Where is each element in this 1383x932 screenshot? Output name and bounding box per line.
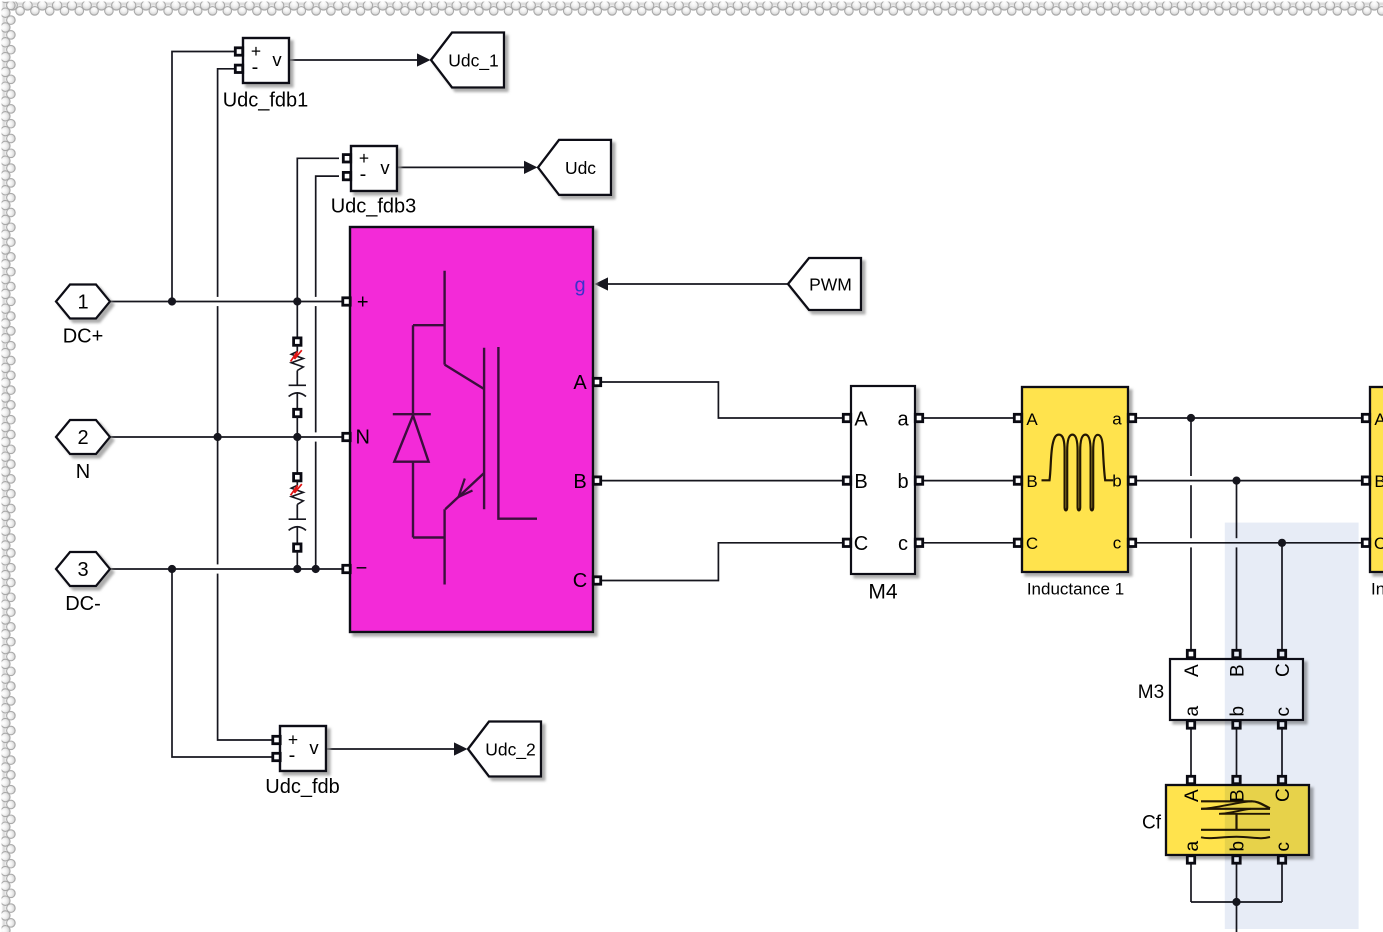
svg-text:Udc_2: Udc_2 (485, 740, 536, 761)
block Inductance 1 body (1022, 387, 1128, 572)
svg-text:Cf: Cf (1142, 813, 1162, 834)
svg-text:Inductance 2: Inductance 2 (1371, 580, 1383, 599)
junction DC- / fdb3 minus (312, 565, 320, 573)
svg-text:Udc_fdb1: Udc_fdb1 (223, 90, 309, 112)
svg-text:DC+: DC+ (63, 326, 104, 348)
svg-text:3: 3 (77, 559, 88, 581)
svg-text:a: a (1112, 410, 1122, 429)
wire Udc_fdb1 plus branch (172, 52, 235, 302)
svg-text:b: b (1112, 472, 1121, 491)
wire Inductance a to Inductance2 A (1132, 417, 1366, 419)
wire Udc_fdb3 plus branch (297, 158, 339, 301)
svg-text:DC-: DC- (65, 593, 101, 615)
block Inductance 2 body (partial) (1370, 387, 1383, 572)
junction b / M3 (1232, 477, 1240, 485)
input port 1 (56, 285, 110, 319)
svg-text:2: 2 (77, 427, 88, 449)
wire bridge C to M4 C (597, 543, 847, 581)
voltage measurement Udc_fdb1 (243, 38, 289, 83)
svg-text:M3: M3 (1138, 682, 1164, 703)
svg-text:+: + (357, 292, 369, 314)
wire phase-c vertical to M3 C (1281, 543, 1283, 650)
wire phase-a vertical to M3 A (1190, 418, 1192, 650)
RC snubber branch 2 (289, 437, 306, 569)
svg-text:A: A (854, 409, 868, 431)
svg-text:A: A (1182, 664, 1203, 677)
junction DC+ / snubber (293, 297, 301, 305)
junction neutral (1232, 898, 1240, 906)
svg-text:C: C (854, 533, 868, 555)
svg-text:a: a (1182, 841, 1203, 852)
svg-text:v: v (380, 157, 390, 178)
Inductance 2 port labels (1374, 410, 1383, 553)
wire Cf b down (1236, 860, 1238, 902)
RC snubber branch 1 (289, 302, 306, 438)
M3 rotated port labels (1182, 663, 1294, 716)
wire bridge A to M4 A (597, 382, 847, 418)
junction N / snubber (293, 433, 301, 441)
label N (76, 461, 90, 483)
svg-text:Udc_1: Udc_1 (448, 51, 499, 72)
wire M4 a to Inductance A (919, 417, 1018, 419)
capacitor bank icon (1201, 801, 1270, 838)
svg-text:PWM: PWM (809, 275, 852, 295)
wire M3 c to Cf C (1281, 726, 1283, 777)
svg-text:C: C (1026, 534, 1038, 553)
svg-text:B: B (1374, 472, 1383, 491)
svg-text:g: g (574, 275, 585, 297)
svg-text:c: c (1113, 534, 1122, 553)
wire N net (110, 436, 347, 438)
goto tag Udc (538, 140, 611, 195)
wire Cf c down (1281, 860, 1283, 902)
from tag PWM (788, 258, 861, 310)
wire Udc_fdb3 minus to DC- net vertical (316, 176, 339, 569)
wire Udc_fdb1 minus to N net vertical (218, 69, 273, 740)
wire Inductance b to Inductance2 B (1132, 480, 1366, 482)
goto tag Udc_1 (431, 33, 504, 88)
wire M4 b to Inductance B (919, 480, 1018, 482)
goto tag Udc_2 (468, 722, 541, 777)
wire Udc_fdb3 output (396, 161, 538, 174)
block M3 body (1170, 659, 1303, 720)
label DC+ (63, 326, 104, 348)
port connector squares (235, 48, 1369, 863)
wire Udc_fdb minus branch (172, 569, 273, 757)
svg-text:B: B (1026, 472, 1037, 491)
wire M3 a to Cf A (1190, 726, 1192, 777)
svg-text:C: C (1374, 534, 1383, 553)
input port 2 (56, 420, 110, 454)
svg-text:A: A (1026, 410, 1038, 429)
svg-text:Udc_fdb3: Udc_fdb3 (331, 196, 417, 218)
junction a / M3 (1187, 414, 1195, 422)
svg-text:C: C (573, 570, 587, 592)
wire neutral bus bottom (1191, 901, 1282, 903)
voltage measurement Udc_fdb3 (351, 146, 397, 191)
label Udc_fdb1 (223, 90, 309, 112)
IGBT with antiparallel diode icon (393, 271, 537, 585)
gate label g (574, 275, 585, 297)
svg-text:c: c (898, 533, 908, 555)
svg-text:a: a (897, 409, 909, 431)
inductor coil icon (1042, 435, 1114, 511)
svg-text:A: A (1374, 410, 1383, 429)
wire Inductance c to Inductance2 C (1132, 542, 1366, 544)
svg-text:Udc: Udc (565, 158, 596, 178)
svg-text:B: B (854, 471, 867, 493)
label M4 (868, 581, 897, 604)
svg-text:1: 1 (77, 292, 88, 314)
svg-text:-: - (289, 745, 296, 767)
svg-text:v: v (309, 737, 319, 758)
shaded selection overlay (1225, 523, 1359, 929)
bridge port labels + N - A B C (355, 292, 587, 593)
svg-text:M4: M4 (868, 581, 897, 604)
label Udc_fdb3 (331, 196, 417, 218)
wire DC+ net (110, 301, 347, 303)
svg-text:N: N (76, 461, 90, 483)
label DC- (65, 593, 101, 615)
svg-text:a: a (1182, 706, 1203, 717)
junction c / M3 (1278, 539, 1286, 547)
svg-text:N: N (355, 427, 369, 449)
label Cf (1142, 813, 1162, 834)
junction N / fdb1 minus (214, 433, 222, 441)
label Inductance 2 (clipped) (1371, 580, 1383, 599)
junction DC- / fdb (168, 565, 176, 573)
junction DC- / snubber (293, 565, 301, 573)
svg-text:−: − (356, 558, 368, 580)
wire M4 c to Inductance C (919, 542, 1018, 544)
wire M3 b to Cf B (1236, 726, 1238, 777)
wire Cf a down (1190, 860, 1192, 902)
wire bridge B to M4 B (597, 480, 847, 482)
svg-text:B: B (573, 471, 586, 493)
IGBT bridge block M1 body (350, 227, 593, 632)
wire crossing gaps (215, 297, 1238, 574)
svg-text:-: - (252, 56, 259, 78)
svg-text:b: b (897, 471, 908, 493)
wire Udc_fdb output (325, 742, 468, 755)
svg-text:Udc_fdb: Udc_fdb (265, 776, 340, 798)
label Inductance 1 (1027, 580, 1124, 599)
junction DC+ / fdb1 (168, 297, 176, 305)
svg-text:-: - (360, 164, 367, 186)
block M4 body (851, 386, 915, 574)
label Udc_fdb (265, 776, 340, 798)
Cf rotated port labels (1182, 788, 1294, 851)
wire PWM to gate g (595, 277, 789, 290)
wire DC- net (110, 568, 347, 570)
input port 3 (56, 552, 110, 586)
block Cf body (1166, 785, 1309, 855)
wire phase-b vertical to M3 B (1236, 481, 1238, 650)
voltage measurement Udc_fdb (280, 726, 326, 771)
label M3 (1138, 682, 1164, 703)
svg-text:A: A (573, 372, 587, 394)
svg-text:Inductance 1: Inductance 1 (1027, 580, 1124, 599)
Inductance 1 port labels (1026, 410, 1122, 554)
svg-text:A: A (1182, 789, 1203, 802)
svg-text:v: v (272, 49, 282, 70)
wire neutral out bottom (1236, 902, 1238, 932)
wire Udc_fdb1 output (289, 53, 431, 66)
M4 port labels (854, 409, 910, 556)
